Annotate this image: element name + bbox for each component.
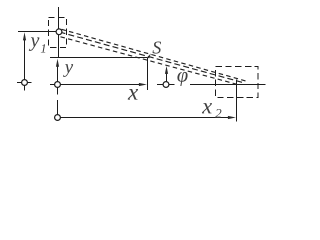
y1 dimension line [24,40,26,79]
label S [153,41,162,53]
label phi [177,72,187,86]
y1 base point circle [22,80,28,86]
y dimension line [57,67,59,82]
label x2 (subscript 2) [215,109,221,118]
vertical extension line from S [147,58,149,91]
x2 dimension baseline [60,117,229,119]
label x [128,89,138,100]
horizontal extension line from S [50,57,147,59]
x axis segment through horizontal guide [190,84,266,86]
rod top edge (dashed) [62,29,246,81]
connector origin to x2 base circle [57,100,59,115]
y1 base point cross vertical [24,74,26,90]
phi reference vertical line [166,73,168,81]
origin horizontal arm left [50,84,55,86]
phi arrowhead (up) [165,66,168,74]
y arrowhead (up) [56,59,59,67]
x2 base circle [55,115,61,121]
label y1 (glyph y) [29,37,40,51]
vertical guide (dashed rectangle, top left) [49,18,67,48]
label x2 (glyph x) [202,103,212,113]
origin vertical arm below [57,87,59,94]
pivot A circle [56,29,62,35]
rod bottom edge (dashed) [61,37,238,85]
horizontal reference line through pivot A [18,31,63,33]
centerline of vertical guide [58,7,60,58]
S tick mark [147,53,151,58]
origin vertical arm above [57,78,59,82]
label y [63,64,73,77]
phi reference circle [163,82,169,88]
x arrowhead (right) [139,83,147,86]
extension line below pivot B [236,79,238,121]
label y1 (subscript 1) [41,44,45,52]
horizontal guide (dashed rectangle, bottom right) [216,67,259,98]
origin circle O [55,82,61,88]
x dimension line [60,84,140,86]
x2 arrowhead (right) [228,116,236,119]
y1 arrowhead (up) [23,32,26,40]
x axis segment through phi circle [157,84,175,86]
y1 base point cross horizontal [17,82,32,84]
rod centerline (dashed) [60,32,243,82]
